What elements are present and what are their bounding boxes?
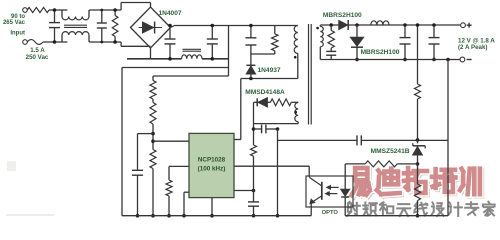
svg-text:MBRS2H100: MBRS2H100 <box>361 49 400 56</box>
svg-text:1N4937: 1N4937 <box>258 67 281 74</box>
svg-text:250 Vac: 250 Vac <box>26 54 49 61</box>
svg-text:90 to: 90 to <box>11 14 25 20</box>
svg-text:(100 kHz): (100 kHz) <box>198 165 226 172</box>
svg-text:MMSZ5241B: MMSZ5241B <box>371 148 410 155</box>
svg-text:MBRS2H100: MBRS2H100 <box>323 12 362 19</box>
svg-text:265 Vac: 265 Vac <box>3 20 26 26</box>
svg-text:OPTO: OPTO <box>322 210 339 216</box>
svg-text:(2 A Peak): (2 A Peak) <box>458 44 487 51</box>
svg-text:Input: Input <box>10 31 25 37</box>
svg-text:NCP1028: NCP1028 <box>198 156 226 163</box>
svg-text:MMSD4148A: MMSD4148A <box>245 89 285 96</box>
svg-text:1N4007: 1N4007 <box>158 10 181 17</box>
